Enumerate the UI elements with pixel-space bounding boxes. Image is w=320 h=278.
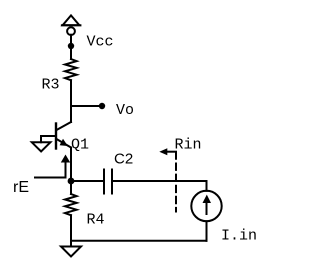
svg-text:C2: C2 — [114, 151, 133, 168]
svg-text:R3: R3 — [42, 77, 60, 94]
svg-text:Rin: Rin — [175, 136, 202, 153]
svg-text:Q1: Q1 — [71, 136, 89, 153]
svg-text:rE: rE — [13, 179, 29, 196]
svg-text:I.in: I.in — [221, 228, 257, 245]
svg-text:R4: R4 — [87, 212, 105, 229]
svg-text:Vcc: Vcc — [87, 33, 114, 50]
svg-text:Vo: Vo — [116, 102, 134, 119]
